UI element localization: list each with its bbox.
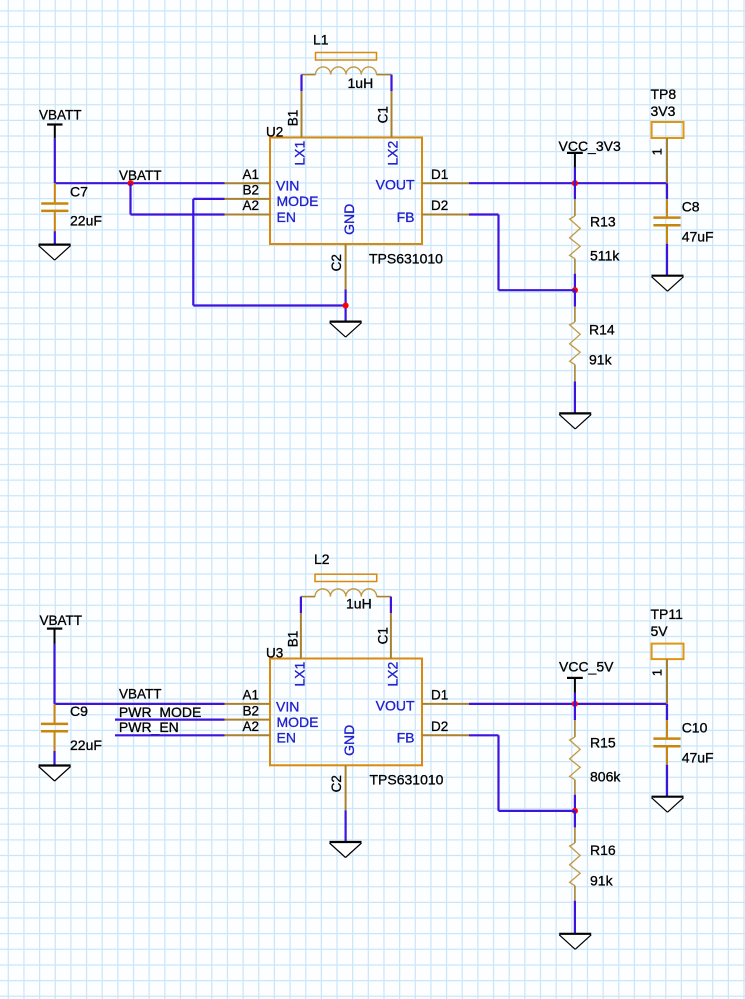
pin name MODE (277, 193, 319, 209)
wire FB segment 1 (469, 213, 499, 215)
test point TP8 (651, 86, 684, 183)
inductor L2 coil (301, 589, 391, 597)
wire node to R14 (574, 290, 576, 306)
svg-text:U3: U3 (266, 645, 283, 660)
junction dot VCC_3V3 (572, 180, 578, 186)
pin name FB bottom (397, 730, 415, 746)
pin name FB (397, 209, 415, 225)
svg-text:1: 1 (650, 669, 665, 676)
resistor R16 (570, 827, 581, 900)
label L2 (314, 551, 330, 567)
pin B2 of U3 (225, 719, 271, 721)
svg-text:806k: 806k (590, 769, 621, 785)
value 22uF (70, 213, 102, 229)
ground under R14 (559, 413, 591, 429)
svg-text:D1: D1 (431, 688, 448, 703)
svg-text:EN: EN (277, 209, 296, 225)
wire VBATT row bottom (55, 703, 225, 705)
svg-text:A2: A2 (242, 198, 259, 213)
wire VBATT stem (54, 138, 56, 183)
svg-text:VCC_3V3: VCC_3V3 (559, 138, 621, 154)
svg-text:A2: A2 (242, 719, 259, 734)
pin D2 (FB) (422, 214, 469, 216)
pin number C2 (329, 254, 344, 271)
svg-text:TP8: TP8 (651, 86, 677, 102)
net label VBATT (119, 168, 162, 183)
pin A1 of U3 (225, 703, 271, 705)
pin name LX2 (385, 140, 401, 165)
svg-text:C1: C1 (375, 106, 390, 123)
svg-text:C1: C1 (375, 627, 390, 644)
svg-text:VOUT: VOUT (376, 697, 415, 713)
svg-text:L1: L1 (313, 32, 329, 48)
svg-text:D1: D1 (431, 167, 448, 182)
pin number A1 bottom (242, 688, 259, 703)
svg-text:LX1: LX1 (292, 661, 308, 686)
pin B1 of U3 (300, 613, 302, 659)
svg-text:FB: FB (397, 730, 415, 746)
junction dot GND node (343, 302, 349, 308)
pin number C1 (375, 106, 390, 123)
svg-text:GND: GND (341, 204, 357, 235)
svg-text:VBATT: VBATT (119, 687, 162, 702)
svg-text:C8: C8 (682, 199, 700, 215)
wire VCC_5V stem (574, 693, 576, 704)
wire VBATT stem bottom (53, 644, 55, 704)
wire R14 to ground (574, 382, 576, 414)
wire VCC_3V3 stem (574, 168, 576, 184)
svg-text:B2: B2 (242, 183, 259, 198)
pin number D2 bottom (431, 719, 448, 734)
svg-text:VIN: VIN (276, 177, 299, 193)
svg-text:LX2: LX2 (385, 140, 401, 165)
wire PWR_EN (115, 734, 225, 736)
pin number C2 bottom (329, 775, 344, 792)
power port VCC_3V3 (559, 138, 621, 168)
inductor L1 body (316, 53, 377, 61)
pin D1 of U3 (422, 703, 469, 705)
junction dot FB node bottom (572, 808, 578, 814)
wire MODE segment 1 (193, 198, 224, 200)
svg-text:VOUT: VOUT (376, 176, 415, 192)
pin D2 of U3 (422, 734, 469, 736)
wire EN vertical (129, 183, 131, 214)
power port VCC_5V (559, 659, 614, 693)
resistor R13 (570, 199, 581, 274)
svg-text:1uH: 1uH (348, 75, 374, 91)
wire EN horizontal (131, 213, 225, 215)
svg-text:VBATT: VBATT (119, 168, 162, 183)
svg-text:511k: 511k (590, 248, 620, 264)
svg-text:5V: 5V (651, 623, 669, 639)
svg-text:91k: 91k (589, 352, 613, 368)
wire MODE segment 2 (192, 199, 194, 306)
inductor L1 coil (302, 67, 392, 75)
svg-text:TPS631010: TPS631010 (369, 251, 443, 267)
junction dot FB node (572, 287, 578, 293)
svg-text:C2: C2 (329, 775, 344, 792)
pin A2 of U3 (225, 734, 271, 736)
pin name VOUT bottom (376, 697, 415, 713)
pin name MODE bottom (277, 714, 319, 730)
value 47uF (682, 229, 714, 245)
label R16 (590, 842, 616, 858)
pin number 1 of TP11 (650, 669, 665, 676)
label R15 (590, 735, 616, 751)
pin name VIN bottom (276, 698, 299, 714)
svg-text:A1: A1 (242, 688, 259, 703)
junction dot VCC_5V (572, 701, 578, 707)
value 1uH bottom (346, 596, 372, 612)
svg-text:D2: D2 (431, 198, 448, 213)
pin name VOUT (376, 176, 415, 192)
svg-text:TP11: TP11 (651, 606, 684, 622)
pin B1 (LX1) (301, 91, 303, 138)
label R14 (589, 322, 615, 338)
svg-text:TPS631010: TPS631010 (370, 772, 444, 788)
label L1 (313, 32, 329, 48)
net label PWR_EN (119, 719, 179, 735)
svg-text:VBATT: VBATT (40, 613, 83, 628)
ground under C8 (652, 276, 684, 292)
wire corner to C8 (666, 183, 668, 199)
svg-text:FB: FB (397, 209, 415, 225)
pin B2 (MODE) (225, 198, 271, 200)
ground under C9 (39, 766, 71, 782)
svg-text:1: 1 (650, 148, 665, 155)
svg-text:LX2: LX2 (385, 661, 401, 686)
wire PWR_MODE (115, 718, 225, 720)
svg-text:A1: A1 (242, 167, 259, 182)
pin name VIN (276, 177, 299, 193)
ground under C2 (330, 322, 362, 338)
pin name LX2 bottom (385, 661, 401, 686)
wire C7 to ground (54, 231, 56, 244)
capacitor C9 (41, 704, 68, 751)
svg-text:C10: C10 (682, 720, 708, 736)
wire corner to C10 (666, 704, 668, 720)
value 511k (590, 248, 620, 264)
wire VOUT row bottom (469, 703, 667, 705)
capacitor C8 (653, 199, 680, 244)
value 806k (590, 769, 621, 785)
svg-text:VCC_5V: VCC_5V (559, 659, 614, 675)
svg-text:91k: 91k (590, 873, 614, 889)
pin C2 (GND) (345, 244, 347, 289)
wire node to R16 (574, 811, 576, 828)
wire C8 to ground (666, 244, 668, 276)
wire VOUT row (469, 182, 667, 184)
wire VBATT row (55, 182, 225, 184)
label C10 (682, 720, 708, 736)
svg-text:R14: R14 (589, 322, 615, 338)
pin number B2 (242, 183, 259, 198)
IC U3 TPS631010 body (270, 659, 422, 766)
label TPS631010 (369, 251, 443, 267)
pin C2 of U3 (345, 765, 347, 810)
capacitor C10 (653, 720, 680, 765)
svg-text:D2: D2 (431, 719, 448, 734)
pin A2 (EN) (225, 214, 271, 216)
label R13 (590, 214, 616, 230)
pin number D1 (431, 167, 448, 182)
svg-text:GND: GND (341, 725, 357, 756)
test point TP11 (651, 606, 684, 704)
wire FB bottom segment 3 (499, 810, 575, 812)
resistor R14 (570, 307, 581, 382)
wire L2 right to C1 (390, 597, 392, 613)
svg-text:C7: C7 (70, 183, 88, 199)
wire R16 to ground (574, 901, 576, 934)
pin number B2 bottom (242, 703, 259, 718)
pin number A2 (242, 198, 259, 213)
pin name LX1 bottom (292, 661, 308, 686)
label C7 (70, 183, 88, 199)
value 1uH (348, 75, 374, 91)
ground under C2 bottom (330, 842, 362, 858)
wire L2 left to B1 (300, 597, 302, 613)
value 22uF bottom (70, 737, 102, 753)
pin name LX1 (292, 140, 308, 165)
pin C1 (LX2) (391, 91, 393, 138)
svg-text:PWR_MODE: PWR_MODE (119, 704, 201, 720)
svg-text:VBATT: VBATT (39, 107, 82, 122)
svg-text:3V3: 3V3 (651, 103, 676, 119)
svg-text:VIN: VIN (276, 698, 299, 714)
svg-text:C2: C2 (329, 254, 344, 271)
svg-text:22uF: 22uF (70, 737, 102, 753)
resistor R15 (570, 720, 581, 795)
pin number A1 (242, 167, 259, 182)
pin name EN (277, 209, 296, 225)
svg-text:B1: B1 (285, 110, 300, 127)
value 91k (589, 352, 613, 368)
inductor L2 body (315, 574, 377, 581)
pin name GND bottom (341, 725, 357, 756)
label U2 (266, 124, 283, 139)
wire VCC to R13 (574, 183, 576, 199)
pin number 1 of TP8 (650, 148, 665, 155)
svg-text:MODE: MODE (277, 714, 319, 730)
label U3 (266, 645, 283, 660)
pin number D1 bottom (431, 688, 448, 703)
svg-text:1uH: 1uH (346, 596, 372, 612)
svg-text:R16: R16 (590, 842, 616, 858)
wire VCC to R15 (574, 704, 576, 720)
pin C1 of U3 (390, 613, 392, 659)
IC U2 TPS631010 body (270, 138, 422, 245)
wire FB segment 3 (499, 289, 575, 291)
power port VBATT (bottom left) (40, 613, 83, 643)
svg-text:R15: R15 (590, 735, 616, 751)
pin number A2 bottom (242, 719, 259, 734)
pin D1 (VOUT) (422, 182, 469, 184)
ground under R16 (559, 934, 591, 950)
svg-text:U2: U2 (266, 124, 283, 139)
pin number D2 (431, 198, 448, 213)
pin name GND (341, 204, 357, 235)
svg-text:B2: B2 (242, 703, 259, 718)
capacitor C7 (41, 183, 68, 231)
wire C2 to ground (345, 289, 347, 321)
value 47uF bottom (682, 750, 714, 766)
pin name EN bottom (277, 730, 296, 746)
svg-text:47uF: 47uF (682, 750, 714, 766)
pin number C1 bottom (375, 627, 390, 644)
net label VBATT bottom (119, 687, 162, 702)
value 91k bottom (590, 873, 614, 889)
wire L1 left to B1 (300, 75, 302, 91)
svg-text:C9: C9 (70, 703, 88, 719)
svg-text:47uF: 47uF (682, 229, 714, 245)
label TPS631010 bottom (370, 772, 444, 788)
wire C10 to ground (666, 765, 668, 797)
wire C2 to ground bottom (345, 810, 347, 842)
svg-text:L2: L2 (314, 551, 330, 567)
wire R15 to node (574, 795, 576, 811)
svg-text:PWR_EN: PWR_EN (119, 719, 179, 735)
power port VBATT (top left) (39, 107, 82, 138)
pin A1 (VIN) (225, 182, 271, 184)
wire R13 to node (574, 274, 576, 291)
svg-text:R13: R13 (590, 214, 616, 230)
svg-text:LX1: LX1 (292, 140, 308, 165)
pin number B1 bottom (285, 631, 300, 648)
pin number B1 (285, 110, 300, 127)
label C9 (70, 703, 88, 719)
wire MODE segment 3 (193, 304, 345, 306)
svg-text:EN: EN (277, 730, 296, 746)
ground under C10 (652, 797, 684, 813)
wire FB bottom segment 1 (469, 734, 499, 736)
wire L1 right to C1 (390, 75, 392, 91)
svg-text:22uF: 22uF (70, 213, 102, 229)
wire C9 to ground (53, 751, 55, 766)
svg-text:B1: B1 (285, 631, 300, 648)
net label PWR_MODE (119, 704, 201, 720)
svg-text:MODE: MODE (277, 193, 319, 209)
ground under C7 (39, 245, 71, 261)
wire FB segment 2 (497, 215, 499, 291)
label C8 (682, 199, 700, 215)
junction dot VBATT (127, 180, 133, 186)
wire FB bottom segment 2 (497, 735, 499, 811)
